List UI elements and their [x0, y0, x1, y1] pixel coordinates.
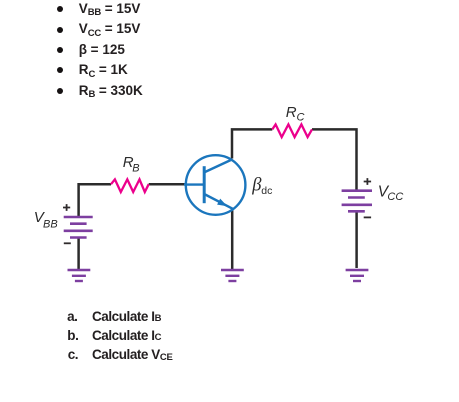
svg-text:dc: dc	[261, 185, 272, 197]
svg-text:R: R	[286, 104, 297, 121]
svg-text:B: B	[132, 162, 139, 174]
svg-text:C: C	[297, 111, 305, 123]
svg-text:BB: BB	[43, 219, 58, 231]
svg-text:CC: CC	[387, 191, 403, 203]
